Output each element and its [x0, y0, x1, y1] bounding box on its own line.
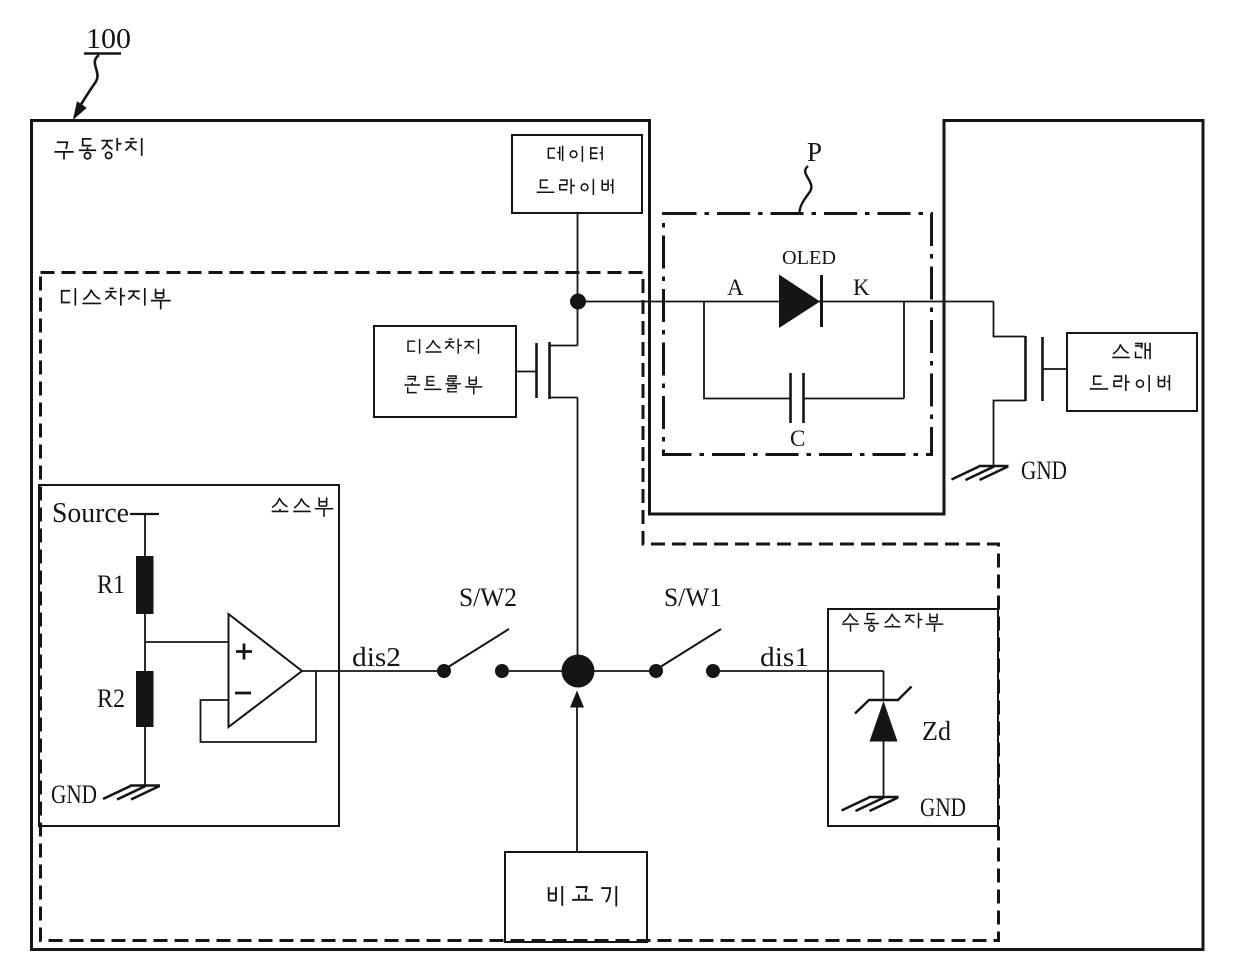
resistor R2: [136, 671, 154, 727]
wire: source terminal tick: [130, 513, 159, 515]
passive element section box (수동소자부): [828, 609, 998, 826]
wire: Q2 source to ground: [994, 401, 1026, 467]
wire: dis1 down to zener cathode: [883, 671, 885, 700]
wire: SW2 to center node: [502, 670, 578, 672]
svg-text:C: C: [790, 426, 805, 451]
data driver box (데이터 드라이버): [512, 135, 642, 213]
svg-text:GND: GND: [51, 780, 97, 809]
leader squiggle from P to pixel boundary: [800, 166, 812, 212]
wire: SW1 to zener (dis1 net): [713, 670, 884, 672]
label: source section (소스부): [272, 498, 334, 517]
discharge section dashed boundary (디스차지부): [41, 273, 999, 941]
wire: divider tap to op-amp + input: [145, 641, 229, 643]
label: driving device (구동장치): [54, 138, 141, 160]
transistor Q1 (discharge TFT): [516, 342, 578, 399]
source section box (소스부): [39, 485, 339, 826]
transistor Q2 channel and gate bars: [1024, 336, 1027, 401]
diode OLED (anode triangle + cathode bar): [779, 275, 820, 329]
label: discharge section (디스차지부): [62, 288, 171, 310]
svg-text:OLED: OLED: [782, 247, 836, 269]
wire: node A to pixel (A-K line): [578, 301, 994, 303]
wire: op-amp output (dis2 net) to switch SW2: [302, 670, 445, 672]
zener diode Zd (cathode bar with bent ends + triangle): [855, 687, 912, 742]
wire: Q2 gate to scan driver: [1043, 368, 1068, 370]
svg-text:100: 100: [86, 23, 131, 55]
storage capacitor branch wires: [704, 302, 904, 399]
op-amp U1: [229, 614, 303, 727]
svg-text:dis2: dis2: [352, 642, 401, 672]
wire: source to R1: [144, 514, 146, 556]
ground (zener): [842, 797, 899, 811]
wire: node A down to discharge TFT drain: [577, 301, 579, 346]
node A junction dot: [570, 294, 586, 310]
ground (source divider): [103, 786, 160, 800]
svg-text:P: P: [807, 137, 822, 167]
svg-text:S/W1: S/W1: [664, 583, 722, 612]
switch S/W2: [437, 629, 509, 678]
label: passive element section (수동소자부): [842, 613, 943, 632]
wire: data driver to node A: [577, 213, 579, 301]
pixel cell enclosure walls: [648, 119, 946, 516]
svg-text:K: K: [853, 275, 870, 300]
wire: zener anode to ground: [883, 741, 885, 797]
wire: comparator output arrow to center node: [576, 705, 578, 852]
reference numeral 100: [84, 23, 131, 55]
wire: R2 to ground: [144, 727, 146, 785]
comparator box (비교기): [505, 852, 647, 942]
switch S/W1: [649, 629, 721, 678]
svg-text:A: A: [727, 275, 744, 300]
resistor R1: [136, 556, 154, 614]
leader arrow from 100 to driving device box: [74, 55, 99, 118]
svg-text:R2: R2: [97, 684, 125, 713]
svg-text:S/W2: S/W2: [459, 583, 517, 612]
svg-text:R1: R1: [97, 570, 125, 599]
ground (scan TFT): [952, 466, 1009, 480]
svg-text:Zd: Zd: [922, 716, 951, 746]
svg-text:dis1: dis1: [760, 642, 809, 672]
feedback wire from - input to output: [201, 671, 317, 742]
svg-text:GND: GND: [1021, 456, 1067, 485]
wire: center node to switch SW1: [578, 670, 656, 672]
svg-text:GND: GND: [920, 793, 966, 822]
transistor Q2 (scan TFT) drain jog: [994, 302, 1026, 337]
pixel P dash-dot boundary: [664, 214, 932, 455]
op-amp + input marking: [236, 644, 252, 660]
wire: Q1 source down to center node: [577, 398, 579, 672]
wire: R1 to R2 with divider tap: [144, 614, 146, 671]
svg-text:Source: Source: [52, 498, 129, 529]
scan driver box (스캔 드라이버): [1067, 333, 1197, 411]
capacitor C plates: [789, 373, 792, 423]
op-amp - input marking: [235, 692, 251, 695]
center node (big junction): [562, 655, 595, 688]
discharge control box (디스차지 콘트롤부): [374, 326, 516, 417]
